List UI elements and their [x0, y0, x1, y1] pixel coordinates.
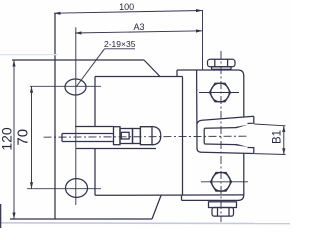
svg-text:100: 100 — [119, 2, 134, 12]
svg-text:120: 120 — [0, 127, 14, 151]
svg-text:A3: A3 — [133, 22, 144, 32]
svg-text:B1: B1 — [271, 130, 283, 144]
svg-text:2-19×35: 2-19×35 — [104, 39, 136, 49]
svg-text:70: 70 — [15, 129, 32, 146]
